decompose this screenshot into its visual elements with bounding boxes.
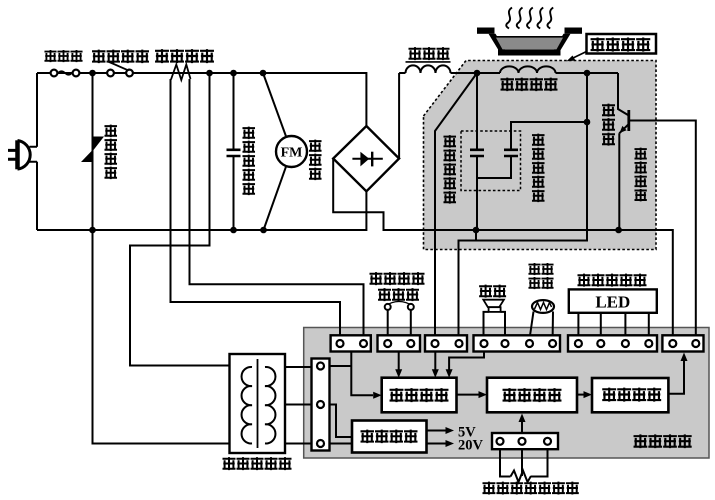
svg-text:20V: 20V <box>458 438 484 454</box>
svg-text:FM: FM <box>281 146 303 161</box>
svg-text:LED: LED <box>595 293 630 312</box>
